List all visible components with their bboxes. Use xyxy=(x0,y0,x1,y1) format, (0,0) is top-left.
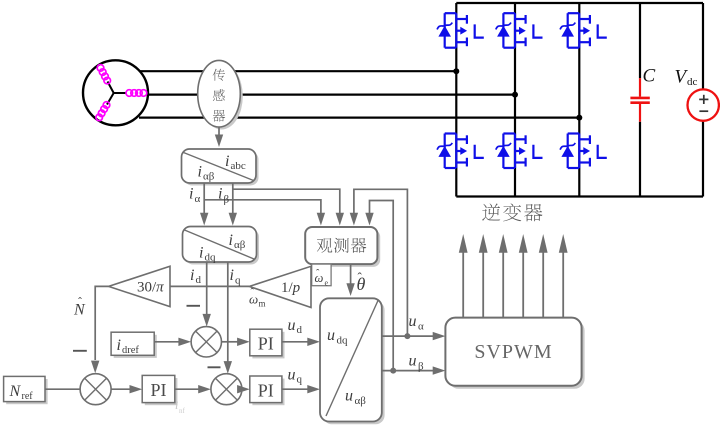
block 1/p divider triangle xyxy=(249,266,311,307)
block PI2 xyxy=(250,329,285,358)
motor winding coil right xyxy=(126,90,147,97)
svg-text:dref: dref xyxy=(122,345,139,356)
block 30/pi gain triangle xyxy=(109,266,170,306)
svg-text:u: u xyxy=(409,313,417,330)
block PI1 xyxy=(142,375,177,405)
block Nref xyxy=(4,376,48,404)
wire inverter leg 3 xyxy=(578,3,580,197)
svg-text:e: e xyxy=(325,279,329,288)
svg-text:dq: dq xyxy=(205,252,217,264)
svg-text:β: β xyxy=(418,361,424,373)
transistor Q6 (leg3 bottom) xyxy=(560,134,607,169)
wire omega-m to 30/pi xyxy=(170,285,249,287)
svg-text:i: i xyxy=(198,164,202,181)
wire i-alpha branch to observer xyxy=(204,200,321,213)
wire N-hat to summing xyxy=(95,286,108,360)
wire iq summing to PI3 xyxy=(238,388,242,390)
motor Y-connection leads xyxy=(107,82,126,105)
svg-text:i: i xyxy=(189,186,193,203)
motor winding coil upper-left xyxy=(97,65,110,84)
node u_alpha junction xyxy=(404,333,410,339)
minus sign at i_q xyxy=(208,366,221,368)
svg-text:i: i xyxy=(190,267,194,284)
svg-text:C: C xyxy=(643,66,656,87)
node u_beta junction xyxy=(390,368,396,374)
wire sensor to iabc box xyxy=(218,127,220,135)
svg-text:i: i xyxy=(229,232,233,249)
svg-text:dc: dc xyxy=(687,76,698,88)
svg-text:u: u xyxy=(345,388,353,405)
transistor Q3 (leg2 top) xyxy=(496,13,543,48)
block omega-e box xyxy=(312,264,331,287)
svg-text:β: β xyxy=(224,194,230,206)
block idref xyxy=(111,332,157,358)
wires SVPWM gate signals xyxy=(463,253,563,318)
svg-text:α: α xyxy=(418,321,424,333)
svg-text:i: i xyxy=(225,153,229,170)
svg-text:d: d xyxy=(196,274,202,286)
svg-text:q: q xyxy=(235,275,241,287)
svg-text:ˆ: ˆ xyxy=(358,270,363,285)
wire phase C motor to inverter xyxy=(139,116,579,118)
wire DC- bottom rail xyxy=(456,195,703,197)
voltage source Vdc xyxy=(688,89,719,120)
svg-text:N: N xyxy=(9,383,22,400)
svg-text:PI: PI xyxy=(150,380,166,400)
svg-text:u: u xyxy=(288,367,296,384)
svg-text:PI: PI xyxy=(258,334,274,354)
wire Vdc branch upper xyxy=(702,3,704,89)
sensor ellipse 传感器 xyxy=(200,63,243,130)
wire u-beta feedback riser xyxy=(370,201,394,371)
capacitor C xyxy=(630,78,649,122)
wire PI1 to iq summing xyxy=(175,388,199,390)
svg-text:PI: PI xyxy=(258,381,274,401)
wire i-alpha down xyxy=(203,183,205,213)
wire capacitor branch lower xyxy=(639,122,641,197)
svg-text:i: i xyxy=(117,337,121,354)
summing junction speed xyxy=(80,374,111,405)
svg-text:SVPWM: SVPWM xyxy=(474,341,552,363)
motor PMSM xyxy=(83,60,148,125)
summing junction iq xyxy=(211,374,242,405)
svg-text:u: u xyxy=(327,327,335,344)
svg-text:i: i xyxy=(218,186,222,203)
motor winding coil lower-left xyxy=(96,102,110,121)
svg-text:ˆ: ˆ xyxy=(78,295,82,309)
svg-text:1/p: 1/p xyxy=(281,280,301,296)
node phase A junction xyxy=(453,68,459,74)
wire u_q PI3 to udq xyxy=(282,388,308,390)
svg-text:i: i xyxy=(199,245,203,262)
svg-text:q: q xyxy=(297,374,303,386)
wire capacitor branch upper xyxy=(639,3,641,78)
wire i-beta branch to observer xyxy=(233,189,340,213)
wire u_alpha to SVPWM xyxy=(382,335,433,337)
svg-text:αβ: αβ xyxy=(355,395,367,407)
wire u_beta to SVPWM xyxy=(382,370,433,372)
wire i_d down to multiplier xyxy=(206,262,208,314)
transistor Q1 (leg1 top) xyxy=(437,13,484,48)
wire inverter leg 1 xyxy=(455,3,457,197)
wire u_d PI2 to udq xyxy=(282,341,308,343)
label 逆变器 (inverter) xyxy=(482,203,542,221)
transistor Q4 (leg2 bottom) xyxy=(496,134,543,169)
wire theta-hat observer to udq xyxy=(350,264,352,283)
svg-text:α: α xyxy=(195,193,201,205)
wire Vdc branch lower xyxy=(702,121,704,197)
svg-text:αβ: αβ xyxy=(234,239,246,251)
wire Nref to summing xyxy=(45,388,80,390)
block observer 观测器 xyxy=(305,227,380,267)
wire u-alpha feedback riser xyxy=(354,189,408,336)
wire phase A motor to inverter xyxy=(139,70,456,72)
block PI3 xyxy=(250,376,285,405)
svg-text:dq: dq xyxy=(337,335,349,347)
svg-text:m: m xyxy=(259,299,266,309)
wire i_q down to multiplier xyxy=(227,262,229,362)
block udq to uab transform xyxy=(320,298,385,424)
svg-text:abc: abc xyxy=(231,160,246,172)
minus sign at i_d xyxy=(187,305,201,307)
svg-text:ref: ref xyxy=(22,391,34,402)
node phase C junction xyxy=(576,115,582,121)
wire id summing to PI2 xyxy=(222,341,238,343)
node phase B junction xyxy=(512,92,518,98)
minus sign at N-hat xyxy=(73,350,87,352)
wire i-beta down xyxy=(232,183,234,213)
svg-text:u: u xyxy=(288,317,296,334)
svg-text:30/π: 30/π xyxy=(137,280,164,296)
svg-text:u: u xyxy=(409,353,417,370)
svg-text:d: d xyxy=(297,324,303,336)
block idq transform xyxy=(183,227,260,265)
block iabc->iab transform xyxy=(182,149,259,186)
wire phase B motor to inverter xyxy=(147,93,515,95)
wire inverter leg 2 xyxy=(514,3,516,197)
wire DC+ top rail xyxy=(456,2,703,4)
wire idref to id summing xyxy=(154,341,179,343)
svg-text:nf: nf xyxy=(179,407,186,415)
svg-text:αβ: αβ xyxy=(203,171,215,183)
svg-text:i: i xyxy=(230,267,234,284)
wire summing to PI1 xyxy=(111,388,130,390)
svg-text:i: i xyxy=(175,398,178,412)
transistor Q2 (leg1 bottom) xyxy=(437,134,484,169)
transistor Q5 (leg3 top) xyxy=(560,13,607,48)
summing junction id xyxy=(191,327,221,357)
block SVPWM xyxy=(445,318,584,389)
